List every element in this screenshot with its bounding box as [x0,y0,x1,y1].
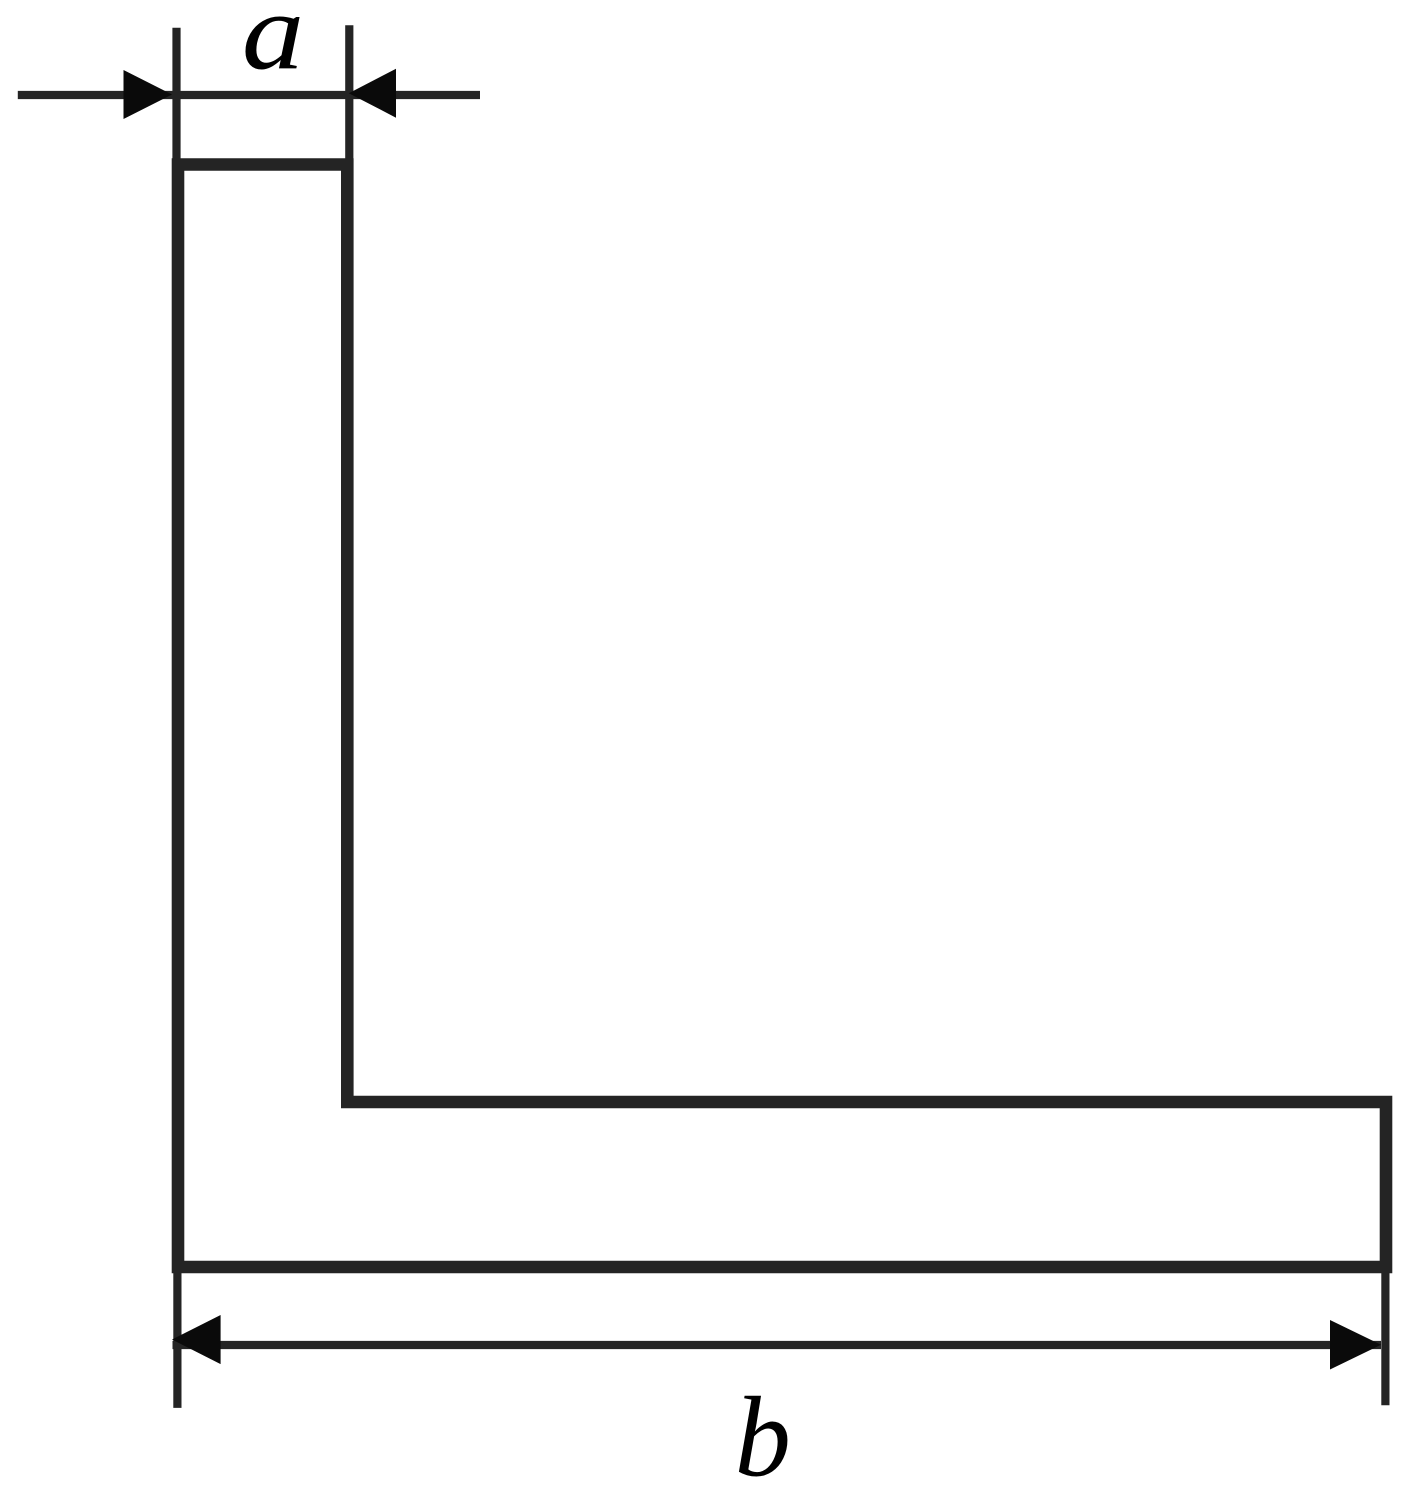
svg-text:a: a [242,0,304,93]
svg-text:b: b [735,1374,791,1496]
